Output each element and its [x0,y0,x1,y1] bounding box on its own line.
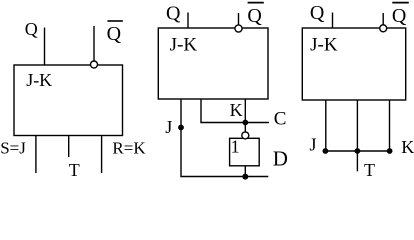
svg-text:1: 1 [231,137,240,157]
svg-text:T: T [69,160,80,180]
svg-text:D: D [273,146,288,170]
svg-text:Q: Q [166,2,181,24]
svg-text:Q: Q [25,19,38,39]
svg-text:J-K: J-K [170,35,198,56]
svg-text:S=J: S=J [0,138,26,157]
svg-text:J-K: J-K [26,70,52,90]
svg-text:Q: Q [310,2,325,24]
svg-text:Q: Q [107,23,122,45]
svg-text:C: C [274,109,287,130]
svg-text:K: K [401,137,414,157]
svg-text:R=K: R=K [112,138,146,157]
svg-text:J: J [310,135,317,155]
svg-text:Q: Q [392,5,407,27]
svg-text:J: J [165,117,172,137]
svg-text:T: T [364,160,375,180]
svg-text:J-K: J-K [310,35,338,56]
svg-text:K: K [230,100,243,120]
svg-text:Q: Q [247,5,262,27]
